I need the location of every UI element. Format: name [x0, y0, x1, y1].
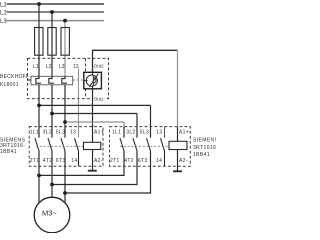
wire Out2 feed down to K2 A1 (grey): [177, 50, 179, 127]
terminal U1 BECKHOFF KL8001 dashed enclosure: [28, 58, 109, 98]
coil K2: [169, 141, 187, 149]
svg-text:A1+: A1+: [179, 130, 189, 136]
terminal U1 internal dashed divider: [85, 58, 87, 98]
fuse F3: [61, 28, 69, 56]
relay contact U1-L1: [36, 76, 41, 83]
wire phase V drop L2 to fuse/terminal: [51, 12, 53, 79]
contactor K1 dashed enclosure: [29, 127, 103, 167]
svg-text:A2-: A2-: [179, 158, 188, 164]
svg-text:L2: L2: [46, 64, 52, 70]
svg-text:M3~: M3~: [42, 209, 57, 218]
svg-text:13: 13: [73, 64, 79, 70]
wire Out1 down to K1 A1: [92, 89, 94, 143]
wire K2 6T3 return: [65, 151, 151, 193]
junction on L1: [37, 2, 41, 6]
junction U branch: [37, 104, 41, 108]
K2 aux 13 stub: [164, 127, 166, 138]
K1 main contact 3 blade: [61, 138, 65, 151]
svg-text:4T2: 4T2: [43, 158, 53, 164]
ground bar K1 A2: [88, 170, 97, 172]
K2 main contact 2 blade: [133, 138, 137, 151]
svg-text:L3: L3: [59, 64, 65, 70]
wire K2 2T1 return: [39, 151, 124, 175]
svg-text:13: 13: [70, 130, 76, 136]
wire drop to K2 5L3: [150, 105, 152, 137]
wire L1 bus: [7, 3, 105, 5]
wire L2 bus: [7, 11, 105, 13]
mechanical linkage strip to drive: [73, 79, 84, 81]
svg-text:1BB41: 1BB41: [193, 152, 210, 158]
wire K2 A2 to ground bar: [177, 150, 179, 172]
junction motor V: [50, 183, 54, 187]
svg-text:14: 14: [71, 158, 77, 164]
wire drop to K2 3L2: [136, 114, 138, 138]
fuse F2: [48, 28, 56, 56]
relay contact strip of U1: [31, 76, 73, 85]
K2 mechanical linkage: [120, 145, 169, 147]
pin label Out1: [93, 96, 105, 102]
svg-text:6T3: 6T3: [138, 158, 148, 164]
drive symbol QM1 of U1: [84, 72, 102, 89]
svg-text:A1+: A1+: [94, 130, 104, 136]
K1 main contact 1 blade: [35, 138, 39, 151]
svg-text:L1: L1: [0, 2, 7, 8]
wire 13 output of U1 to K1 aux (grey): [78, 69, 80, 138]
K1 aux 14 stub: [78, 151, 80, 166]
wire K2 A1 inside box: [177, 127, 179, 141]
relay contact U1-L2: [49, 76, 54, 83]
wire Out2 up and over to K2 coil: [93, 50, 178, 72]
fuse F1: [35, 28, 43, 56]
svg-text:5L3: 5L3: [56, 130, 65, 136]
wire branch W to K2-1L1 (grey): [65, 121, 124, 123]
svg-text:4T2: 4T2: [124, 158, 134, 164]
junction on L2: [50, 10, 54, 14]
svg-text:1L1: 1L1: [112, 130, 121, 136]
svg-text:3RT1016-: 3RT1016-: [193, 145, 216, 151]
svg-text:2T1: 2T1: [110, 158, 120, 164]
svg-text:6T3: 6T3: [56, 158, 66, 164]
svg-text:KL8001: KL8001: [0, 82, 19, 88]
svg-text:3L2: 3L2: [126, 130, 135, 136]
svg-text:2T1: 2T1: [30, 158, 40, 164]
wire K2 4T2 return: [52, 151, 137, 185]
wire phase U K1 input: [38, 85, 40, 138]
junction on L3: [63, 19, 67, 23]
wire K1 2T1 to motor: [38, 151, 40, 203]
junction motor U: [37, 174, 41, 178]
wire branch U to K2-5L3: [39, 104, 151, 106]
svg-text:1BB41: 1BB41: [0, 149, 17, 155]
svg-text:3L2: 3L2: [43, 130, 52, 136]
K2 aux contact 13-14 blade: [161, 138, 165, 151]
svg-text:L3: L3: [0, 19, 7, 25]
wire K1 6T3 to motor: [64, 151, 66, 203]
wire K1 4T2 to motor: [51, 151, 53, 198]
svg-text:L1: L1: [33, 64, 39, 70]
coil K1: [84, 142, 101, 149]
wire phase V K1 input: [51, 85, 53, 138]
junction W branch: [63, 120, 67, 124]
relay contact U1-L3: [62, 76, 67, 83]
svg-text:13: 13: [156, 130, 162, 136]
K2 main contact 1 blade: [120, 138, 124, 151]
svg-text:SIEMENS: SIEMENS: [193, 138, 216, 144]
junction V branch: [50, 112, 54, 116]
svg-text:Out1: Out1: [94, 96, 104, 101]
svg-text:1L1: 1L1: [30, 130, 39, 136]
junction motor W: [63, 191, 67, 195]
svg-text:5L3: 5L3: [140, 130, 149, 136]
K1 mechanical linkage: [36, 145, 84, 147]
svg-text:L2: L2: [0, 10, 7, 16]
K2 aux 14 stub: [164, 151, 166, 166]
wire phase W K1 input: [64, 85, 66, 138]
ground bar K2 A2: [173, 170, 182, 172]
K1 main contact 2 blade: [48, 138, 52, 151]
svg-text:14: 14: [156, 158, 162, 164]
contactor K2 dashed enclosure: [110, 127, 191, 167]
wire L3 bus: [7, 20, 105, 22]
K1 aux contact 13-14 blade: [75, 138, 79, 151]
wire tap into strip: [28, 79, 32, 81]
K2 main contact 3 blade: [147, 138, 151, 151]
svg-text:Out2: Out2: [94, 64, 104, 69]
wire drop to K2 1L1: [123, 122, 125, 128]
wire K1 A2 to ground bar: [92, 150, 94, 171]
svg-text:BECKHOFF: BECKHOFF: [0, 74, 29, 80]
motor M1: [34, 197, 70, 233]
wire branch V to K2-3L2: [52, 113, 137, 115]
wire phase U drop L1 to fuse/terminal: [38, 4, 40, 79]
wire phase W drop L3 to fuse/terminal: [64, 21, 66, 79]
svg-text:A2-: A2-: [94, 158, 103, 164]
